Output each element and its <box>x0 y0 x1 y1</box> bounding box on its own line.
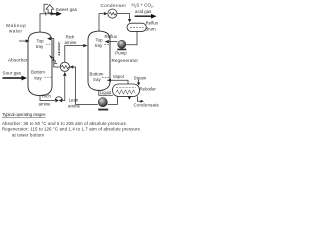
arrowhead lean amine into absorber top <box>47 37 51 40</box>
svg-text:Lean amine: Lean amine <box>57 42 61 57</box>
svg-text:tray: tray <box>95 43 103 48</box>
sour gas bold feed arrow <box>3 77 22 79</box>
svg-text:tray: tray <box>36 44 44 49</box>
svg-text:tray: tray <box>93 77 101 82</box>
svg-text:Lean: Lean <box>69 97 79 102</box>
makeup water feed arrow into absorber top <box>19 40 26 42</box>
absorber column T-101 <box>28 32 52 96</box>
lean amine pump P-101 <box>98 98 107 107</box>
lean amine pipe reboiler to pump <box>108 96 118 104</box>
absorber bottom tray dashed line <box>45 76 53 78</box>
svg-text:acid gas: acid gas <box>135 9 152 14</box>
svg-text:Bottom: Bottom <box>90 71 104 76</box>
condensate outlet pipe <box>138 96 141 101</box>
rich amine pipe exchanger to regenerator top <box>65 46 84 63</box>
lean/rich heat exchanger E-101 <box>60 62 69 71</box>
svg-text:amine: amine <box>68 104 81 109</box>
svg-text:Sour gas: Sour gas <box>3 71 22 76</box>
liquid pipe regenerator bottom to reboiler <box>99 91 113 96</box>
regenerator overhead pipe to condenser <box>99 14 104 32</box>
svg-text:Typical operating ranges: Typical operating ranges <box>2 112 46 117</box>
svg-text:tray: tray <box>34 75 42 80</box>
cooler zigzag arrow (heat removal) <box>51 57 57 64</box>
vapor return pipe reboiler to regenerator <box>111 80 128 84</box>
absorber top tray dashed line <box>46 43 52 45</box>
reflux drum outlet pipe to reflux pump <box>126 31 137 44</box>
svg-text:Regenerator: 115 to 126 °C and: Regenerator: 115 to 126 °C and 1.4 to 1.… <box>2 127 141 132</box>
svg-text:water: water <box>9 29 23 34</box>
arrowhead lean amine into exchanger right <box>70 65 74 68</box>
svg-text:Makeup: Makeup <box>6 23 26 28</box>
condenser E-102 <box>108 9 117 18</box>
reflux drum level dashed line <box>130 26 144 28</box>
svg-text:Pump: Pump <box>115 50 127 55</box>
arrowhead rich amine into exchanger <box>63 72 66 76</box>
svg-text:Top: Top <box>95 37 103 42</box>
acid gas bold product arrow <box>135 15 152 17</box>
valve body arcs at base <box>45 12 52 16</box>
svg-text:Vapor: Vapor <box>113 74 125 79</box>
svg-text:amine: amine <box>39 101 52 106</box>
regenerator top tray dashed line <box>105 44 111 46</box>
vent valve bracket on sweet gas line <box>44 4 48 12</box>
svg-text:amine: amine <box>65 40 78 45</box>
steam feed arrow into reboiler <box>138 80 140 83</box>
sweet gas riser pipe <box>40 14 50 32</box>
svg-text:Bottom: Bottom <box>31 70 45 75</box>
rich amine pipe from absorber bottom <box>40 96 55 101</box>
lean amine pipe exchanger to cooler riser <box>50 39 60 67</box>
reflux drum D-101 <box>127 23 146 31</box>
regenerator column T-102 <box>88 31 110 90</box>
reflux pump P-102 <box>118 40 126 48</box>
svg-text:Rich: Rich <box>66 34 75 39</box>
svg-text:Condenser: Condenser <box>101 3 127 8</box>
reboiler tube bundle zigzag <box>116 90 135 94</box>
svg-text:Reflux: Reflux <box>146 21 159 26</box>
sweet gas bold arrow <box>50 13 57 15</box>
condenser outlet pipe to reflux drum <box>117 14 130 20</box>
svg-text:Rich: Rich <box>42 94 51 99</box>
svg-text:Condensate: Condensate <box>134 103 160 108</box>
level control valve on rich amine line <box>55 97 62 101</box>
regenerator bottom tray dashed line <box>102 76 110 78</box>
svg-text:Steam: Steam <box>134 75 147 80</box>
svg-text:Reflux: Reflux <box>105 34 118 39</box>
svg-text:Top: Top <box>36 39 44 44</box>
lean amine pipe pump to exchanger <box>70 67 98 104</box>
svg-text:Regenerator: Regenerator <box>112 58 139 63</box>
svg-text:Absorber: 35 to 50 °C and 5 to: Absorber: 35 to 50 °C and 5 to 205 atm o… <box>2 121 127 126</box>
svg-text:Liquid: Liquid <box>100 90 112 95</box>
rich amine pipe valve to riser <box>62 76 64 101</box>
svg-text:Sweet gas: Sweet gas <box>56 7 78 12</box>
svg-text:at tower bottom: at tower bottom <box>12 132 44 137</box>
svg-text:Absorber: Absorber <box>8 57 28 62</box>
reboiler level dashed line <box>116 87 136 89</box>
reboiler E-103 <box>113 84 140 96</box>
reflux pump discharge arrow into regenerator <box>109 41 117 43</box>
hollow up arrow of vent valve <box>46 5 54 13</box>
svg-text:Reboiler: Reboiler <box>140 86 157 91</box>
condensate drain arrowhead under reboiler <box>128 97 131 100</box>
svg-text:drum: drum <box>146 27 156 32</box>
